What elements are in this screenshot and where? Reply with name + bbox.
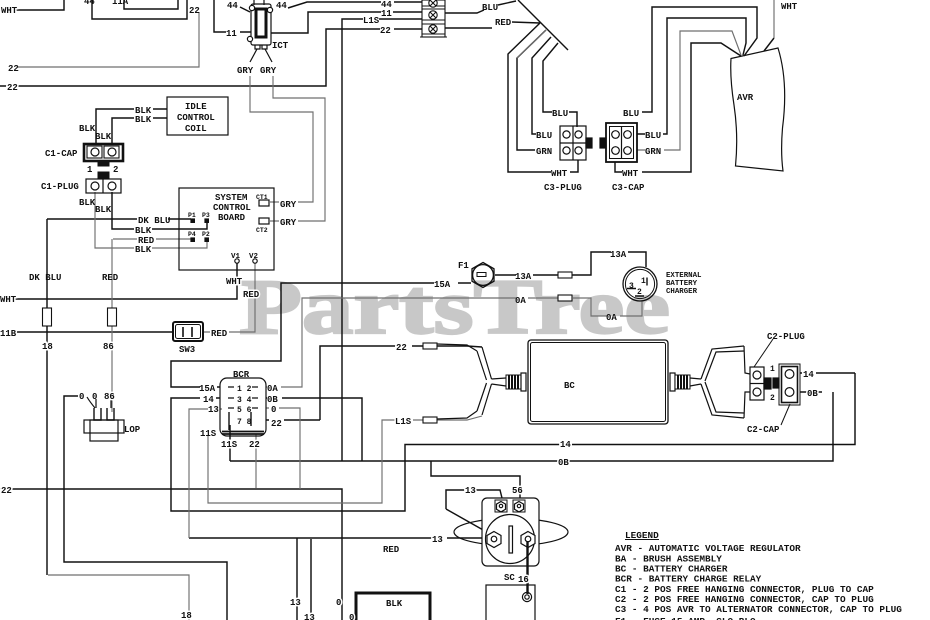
svg-text:C3 - 4 POS AVR TO ALTERNATOR C: C3 - 4 POS AVR TO ALTERNATOR CONNECTOR, …	[615, 604, 902, 615]
svg-text:22: 22	[1, 486, 12, 496]
svg-text:7 8: 7 8	[237, 418, 252, 427]
svg-text:C3-CAP: C3-CAP	[612, 183, 645, 193]
svg-text:WHT: WHT	[226, 277, 243, 287]
svg-text:18: 18	[181, 611, 192, 620]
svg-text:2: 2	[113, 165, 118, 175]
svg-text:C2-CAP: C2-CAP	[747, 425, 780, 435]
svg-text:GRY: GRY	[280, 200, 297, 210]
svg-text:BOARD: BOARD	[218, 213, 246, 223]
svg-text:C3-PLUG: C3-PLUG	[544, 183, 582, 193]
svg-text:L1S: L1S	[395, 417, 412, 427]
svg-text:BLU: BLU	[623, 109, 639, 119]
svg-text:RED: RED	[383, 545, 400, 555]
svg-text:C2-PLUG: C2-PLUG	[767, 332, 805, 342]
svg-text:0A: 0A	[515, 296, 526, 306]
svg-text:COIL: COIL	[185, 124, 207, 134]
svg-text:BLK: BLK	[386, 599, 403, 609]
svg-text:3: 3	[629, 282, 634, 291]
svg-text:RED: RED	[495, 18, 512, 28]
svg-text:DK BLU: DK BLU	[138, 216, 170, 226]
svg-text:BCR - BATTERY CHARGE RELAY: BCR - BATTERY CHARGE RELAY	[615, 574, 762, 585]
svg-text:13: 13	[290, 598, 301, 608]
svg-text:15A: 15A	[199, 384, 216, 394]
svg-text:1: 1	[770, 365, 775, 374]
svg-text:BLK: BLK	[135, 115, 152, 125]
svg-text:0: 0	[92, 392, 97, 402]
svg-text:0A: 0A	[267, 384, 278, 394]
svg-text:0A: 0A	[606, 313, 617, 323]
svg-text:BLK: BLK	[95, 132, 112, 142]
svg-text:CT2: CT2	[256, 227, 268, 234]
svg-text:22: 22	[7, 83, 18, 93]
svg-text:BLK: BLK	[135, 226, 152, 236]
svg-text:CONTROL: CONTROL	[213, 203, 251, 213]
svg-text:14: 14	[203, 395, 214, 405]
svg-text:86: 86	[104, 392, 115, 402]
svg-text:WHT: WHT	[551, 169, 568, 179]
svg-text:LOP: LOP	[124, 425, 141, 435]
svg-text:BCR: BCR	[233, 370, 250, 380]
svg-text:C1-PLUG: C1-PLUG	[41, 182, 79, 192]
svg-text:15A: 15A	[434, 280, 451, 290]
svg-text:L1S: L1S	[363, 16, 380, 26]
svg-text:11S: 11S	[200, 429, 217, 439]
svg-text:BC: BC	[564, 381, 575, 391]
svg-text:22: 22	[271, 419, 282, 429]
svg-text:V2: V2	[249, 253, 259, 261]
svg-text:0B: 0B	[807, 389, 818, 399]
svg-text:0B: 0B	[558, 458, 569, 468]
svg-text:P1: P1	[188, 212, 196, 219]
svg-text:22: 22	[249, 440, 260, 450]
svg-text:GRY: GRY	[260, 66, 277, 76]
svg-text:BLK: BLK	[135, 245, 152, 255]
svg-text:P3: P3	[202, 212, 210, 219]
svg-text:5 6: 5 6	[237, 406, 252, 415]
svg-text:18: 18	[42, 342, 53, 352]
svg-text:44: 44	[276, 1, 287, 11]
svg-text:PartsTree: PartsTree	[239, 263, 670, 350]
svg-text:13: 13	[465, 486, 476, 496]
svg-text:13A: 13A	[515, 272, 532, 282]
svg-text:WHT: WHT	[622, 169, 639, 179]
svg-text:0: 0	[349, 613, 354, 620]
svg-text:86: 86	[103, 342, 114, 352]
svg-text:RED: RED	[102, 273, 119, 283]
svg-text:13: 13	[304, 613, 315, 620]
svg-text:3 4: 3 4	[237, 396, 252, 405]
svg-text:14: 14	[803, 370, 814, 380]
svg-text:CONTROL: CONTROL	[177, 113, 215, 123]
svg-text:11: 11	[381, 9, 392, 19]
svg-text:BATTERY: BATTERY	[666, 280, 698, 288]
svg-text:BLU: BLU	[482, 3, 498, 13]
svg-text:11S: 11S	[221, 440, 238, 450]
svg-text:14: 14	[560, 440, 571, 450]
svg-text:WHT: WHT	[1, 6, 18, 16]
svg-text:22: 22	[8, 64, 19, 74]
svg-text:GRY: GRY	[237, 66, 254, 76]
svg-text:ICT: ICT	[272, 41, 289, 51]
svg-text:GRY: GRY	[280, 218, 297, 228]
svg-text:13: 13	[208, 405, 219, 415]
svg-text:SW3: SW3	[179, 345, 195, 355]
svg-text:2: 2	[637, 288, 642, 297]
svg-text:11: 11	[226, 29, 237, 39]
svg-text:F1: F1	[458, 261, 469, 271]
svg-text:44: 44	[227, 1, 238, 11]
svg-text:1 2: 1 2	[237, 385, 252, 394]
svg-text:BLU: BLU	[645, 131, 661, 141]
svg-text:P4: P4	[188, 231, 196, 238]
svg-text:F1 - FUSE 15 AMP, SLO-BLO: F1 - FUSE 15 AMP, SLO-BLO	[615, 616, 756, 620]
svg-text:P2: P2	[202, 231, 210, 238]
svg-text:13: 13	[432, 535, 443, 545]
svg-text:GRN: GRN	[536, 147, 552, 157]
svg-text:AVR: AVR	[737, 93, 754, 103]
svg-text:0: 0	[336, 598, 341, 608]
svg-text:22: 22	[396, 343, 407, 353]
svg-text:44: 44	[84, 0, 95, 7]
svg-text:V1: V1	[231, 253, 241, 261]
svg-text:WHT: WHT	[781, 2, 798, 12]
svg-text:0B: 0B	[267, 395, 278, 405]
svg-text:DK BLU: DK BLU	[29, 273, 61, 283]
svg-text:BLU: BLU	[536, 131, 552, 141]
svg-text:1: 1	[87, 165, 93, 175]
svg-text:0: 0	[79, 392, 84, 402]
svg-text:CHARGER: CHARGER	[666, 288, 698, 296]
svg-text:RED: RED	[243, 290, 260, 300]
svg-text:11B: 11B	[0, 329, 17, 339]
svg-text:BLU: BLU	[552, 109, 568, 119]
svg-text:BLK: BLK	[79, 198, 96, 208]
svg-text:56: 56	[512, 486, 523, 496]
svg-text:IDLE: IDLE	[185, 102, 207, 112]
svg-text:0: 0	[271, 405, 276, 415]
svg-text:CT1: CT1	[256, 194, 268, 201]
svg-text:11A: 11A	[112, 0, 129, 7]
svg-text:C1-CAP: C1-CAP	[45, 149, 78, 159]
svg-text:GRN: GRN	[645, 147, 661, 157]
svg-text:BLK: BLK	[95, 205, 112, 215]
svg-text:16: 16	[518, 575, 529, 585]
svg-text:22: 22	[189, 6, 200, 16]
svg-text:BLK: BLK	[79, 124, 96, 134]
svg-text:EXTERNAL: EXTERNAL	[666, 272, 702, 280]
svg-text:2: 2	[770, 394, 775, 403]
svg-text:SC: SC	[504, 573, 515, 583]
svg-text:SYSTEM: SYSTEM	[215, 193, 247, 203]
svg-text:22: 22	[380, 26, 391, 36]
svg-text:1: 1	[641, 277, 646, 286]
svg-text:RED: RED	[211, 329, 228, 339]
svg-text:13A: 13A	[610, 250, 627, 260]
svg-text:WHT: WHT	[0, 295, 17, 305]
svg-text:AVR - AUTOMATIC VOLTAGE REGULA: AVR - AUTOMATIC VOLTAGE REGULATOR	[615, 543, 801, 554]
